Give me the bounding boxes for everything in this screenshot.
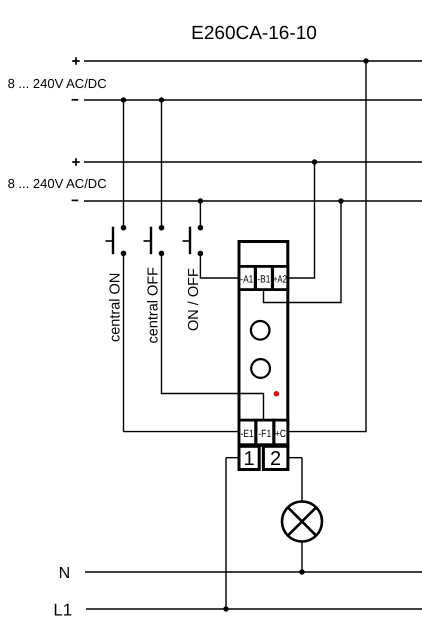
svg-text:-F1: -F1 — [258, 428, 271, 440]
svg-text:-B1: -B1 — [257, 273, 270, 285]
svg-text:central OFF: central OFF — [145, 267, 161, 344]
svg-text:2: 2 — [270, 448, 281, 470]
svg-text:+A2: +A2 — [273, 273, 287, 285]
svg-text:8 ... 240V AC/DC: 8 ... 240V AC/DC — [8, 176, 107, 191]
svg-text:L1: L1 — [53, 601, 72, 620]
svg-text:8 ... 240V AC/DC: 8 ... 240V AC/DC — [8, 76, 107, 91]
svg-text:-A1: -A1 — [240, 273, 253, 285]
svg-text:central ON: central ON — [108, 273, 124, 342]
svg-text:N: N — [59, 565, 71, 582]
svg-text:1: 1 — [244, 448, 255, 470]
svg-text:E260CA-16-10: E260CA-16-10 — [191, 23, 317, 44]
svg-text:ON / OFF: ON / OFF — [186, 268, 202, 331]
svg-text:-E1: -E1 — [241, 428, 254, 440]
svg-text:+C: +C — [275, 428, 286, 440]
